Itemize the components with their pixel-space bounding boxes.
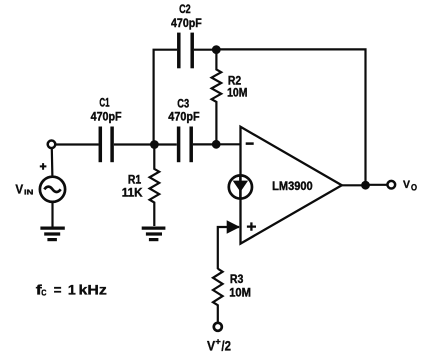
- wire: feedback top run to output column: [216, 49, 365, 183]
- wire: terminal down to VIN source: [51, 148, 54, 177]
- resistor R3: [213, 269, 223, 323]
- minus sign (inverting input): [246, 142, 254, 145]
- plus sign (non-inverting input): [247, 222, 256, 230]
- svg-text:470pF: 470pF: [168, 111, 199, 124]
- svg-text:C: C: [41, 288, 47, 297]
- svg-text:LM3900: LM3900: [272, 181, 313, 194]
- wire: inverting input: [216, 143, 239, 145]
- arrowhead (+ input): [227, 220, 240, 234]
- input terminal: [48, 141, 56, 149]
- svg-text:IN: IN: [24, 188, 33, 197]
- resistor R2: [212, 50, 222, 144]
- svg-text:kHz: kHz: [79, 282, 107, 298]
- resistor R1: [150, 145, 160, 227]
- svg-text:10M: 10M: [229, 287, 251, 300]
- ground (R1): [142, 228, 166, 240]
- wire: non-inverting input: [218, 227, 239, 269]
- node B (junction, inverting input): [212, 140, 221, 149]
- node A (junction): [150, 140, 159, 149]
- plus sign (VIN polarity): [40, 163, 47, 170]
- svg-text:C1: C1: [99, 97, 110, 110]
- wire: input terminal to C1: [56, 143, 99, 145]
- voltage source VIN: [40, 177, 65, 202]
- wire: C2 to junction C: [194, 49, 215, 51]
- svg-text:R1: R1: [128, 174, 142, 187]
- svg-text:C3: C3: [177, 98, 189, 111]
- svg-text:/2: /2: [221, 338, 231, 353]
- svg-text:V: V: [15, 181, 23, 196]
- terminal V+/2: [214, 323, 222, 331]
- wire: C1 to junction A: [114, 143, 154, 145]
- capacitor C2: [179, 33, 192, 69]
- wire: VIN bottom to ground: [51, 202, 53, 227]
- svg-text:470pF: 470pF: [91, 111, 122, 124]
- wire: op-amp output: [342, 184, 363, 186]
- wire: C3 to junction B: [193, 143, 215, 145]
- svg-text:C2: C2: [179, 3, 191, 16]
- svg-text:11K: 11K: [122, 187, 143, 200]
- svg-text:O: O: [411, 183, 417, 193]
- svg-text:470pF: 470pF: [171, 17, 202, 30]
- wire: junction A to C3: [154, 143, 176, 145]
- svg-text:R3: R3: [230, 273, 244, 286]
- svg-text:1: 1: [68, 282, 76, 298]
- capacitor C3: [179, 127, 192, 163]
- svg-text:=: =: [54, 282, 62, 298]
- output terminal: [387, 181, 395, 189]
- capacitor C1: [100, 127, 112, 163]
- op-amp U1 LM3900 (triangle): [241, 127, 342, 244]
- node C (junction, top): [212, 45, 221, 54]
- wire: output node to terminal: [369, 184, 387, 186]
- svg-text:V: V: [207, 338, 215, 353]
- svg-text:V: V: [403, 179, 410, 191]
- wire: junction A up to C2: [154, 50, 177, 145]
- current source (Norton mirror): [229, 175, 252, 200]
- svg-text:10M: 10M: [227, 87, 247, 100]
- node: output junction: [361, 181, 370, 190]
- ground (VIN): [40, 228, 64, 240]
